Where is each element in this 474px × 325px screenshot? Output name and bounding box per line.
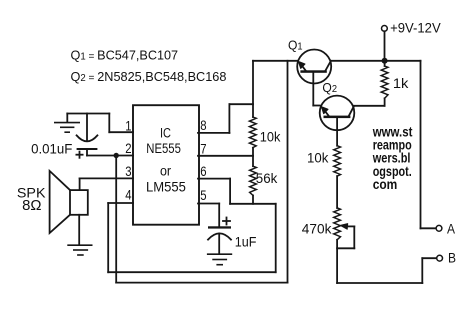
capacitor C2 1uF	[208, 218, 231, 254]
svg-text:6: 6	[200, 164, 206, 180]
svg-text:LM555: LM555	[146, 179, 186, 195]
wire: pin 1	[109, 131, 133, 133]
wire: pin 7	[198, 155, 253, 157]
wire: pin 4 to inner loop	[108, 202, 133, 204]
svg-text:NE555: NE555	[146, 141, 181, 157]
transistor Q1	[297, 50, 331, 106]
svg-text:8: 8	[200, 118, 206, 134]
wire: inner loop top to pin6 riser	[230, 203, 276, 205]
wire: outer loop bottom	[116, 282, 287, 284]
terminal B	[437, 255, 443, 261]
resistor R2 56k	[250, 166, 257, 195]
svg-text:1k: 1k	[393, 76, 409, 92]
svg-text:B: B	[448, 251, 456, 267]
svg-text:5: 5	[200, 188, 206, 204]
svg-text:10k: 10k	[260, 129, 281, 145]
wire: 1k bottom to Q2 collector	[354, 105, 384, 107]
svg-text:Q1 = BC547,BC107: Q1 = BC547,BC107	[71, 47, 179, 62]
wire: pin 5 to 1uF	[198, 203, 219, 205]
svg-text:+9V-12V: +9V-12V	[390, 19, 441, 35]
IC U1 555 box	[133, 105, 199, 225]
svg-text:Q2 = 2N5825,BC548,BC168: Q2 = 2N5825,BC548,BC168	[71, 69, 227, 84]
svg-text:or: or	[160, 164, 171, 180]
wire: between 10k and 56k, pin7 tee	[252, 148, 254, 167]
text: transistor equivalents	[71, 47, 227, 84]
wire: Q1 base down, over to Q2 emitter	[313, 105, 320, 107]
svg-text:470k: 470k	[302, 222, 332, 238]
speaker SPK 8ohm	[50, 171, 88, 245]
terminal A	[436, 225, 442, 231]
svg-text:1uF: 1uF	[235, 235, 257, 251]
wire: inner loop bottom	[108, 271, 276, 273]
wire: ground to pin1 corner	[67, 113, 109, 115]
node: pin2 junction dot	[114, 153, 119, 158]
wire: inner loop right vertical	[275, 204, 277, 272]
svg-text:0.01uF: 0.01uF	[31, 140, 72, 156]
ground G1 (top-left near 0.01uF)	[55, 114, 79, 133]
svg-text:A: A	[447, 221, 455, 237]
transistor Q2	[320, 96, 355, 146]
wire: corner down to pin 1	[108, 114, 110, 133]
resistor R4 10k (right)	[334, 146, 341, 176]
svg-text:com: com	[373, 177, 398, 192]
wire: emitter rail vertical (10k/56k column top)	[252, 61, 254, 117]
label IC NE555 or LM555	[146, 125, 186, 195]
resistor R1 10k (left column)	[249, 117, 256, 148]
svg-text:4: 4	[125, 187, 131, 203]
text: website	[372, 125, 413, 192]
svg-text:3: 3	[125, 164, 131, 180]
svg-text:7: 7	[200, 141, 206, 157]
resistor R3 1k	[381, 61, 388, 106]
capacitor C1 0.01uF	[76, 114, 97, 158]
svg-text:8Ω: 8Ω	[22, 198, 42, 214]
pin number labels	[125, 118, 206, 204]
wire: emitter rail horizontal to Q1	[253, 60, 297, 62]
wire: A column	[420, 61, 422, 229]
svg-text:56k: 56k	[256, 171, 278, 187]
terminal +9V-12V	[382, 26, 388, 32]
wire: pin 3 to speaker	[80, 177, 134, 179]
svg-text:IC: IC	[160, 125, 171, 141]
svg-text:2: 2	[125, 141, 131, 157]
ground G3 (below 1uF)	[208, 254, 232, 265]
svg-text:Q2: Q2	[322, 80, 337, 95]
potentiometer R5 470k	[334, 208, 355, 283]
wire: pin 6	[198, 178, 230, 180]
wire: 10k to 470k	[336, 176, 338, 208]
wire: 56k bottom to inner loop top	[252, 195, 254, 203]
svg-text:10k: 10k	[307, 150, 329, 166]
node: supply junction dot	[382, 58, 388, 64]
ground G2 (below speaker)	[68, 245, 92, 255]
wire: bottom run to B	[337, 282, 422, 284]
wire: pin 8 up and over to 10k	[198, 132, 229, 134]
wire: Q1 collector rail to A-column	[331, 60, 420, 62]
wire: outer loop left vertical	[115, 156, 117, 283]
wire: pin 2	[87, 155, 133, 157]
svg-text:1: 1	[125, 119, 131, 135]
wire: outer loop right vertical up to Q1 emitter rail	[287, 61, 289, 283]
svg-text:Q1: Q1	[288, 37, 303, 52]
